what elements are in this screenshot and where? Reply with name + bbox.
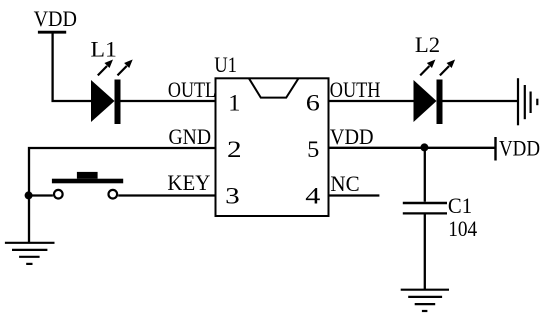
svg-text:OUTL: OUTL xyxy=(168,79,216,103)
net label KEY xyxy=(167,171,210,196)
wire U1 pin 5 to VDD port xyxy=(329,147,496,149)
pin number 5 xyxy=(307,137,319,162)
svg-text:VDD: VDD xyxy=(34,6,77,31)
wire junction to switch left terminal xyxy=(29,194,53,196)
svg-text:U1: U1 xyxy=(214,54,237,78)
LED L2 arrow 1 xyxy=(420,60,435,76)
svg-text:KEY: KEY xyxy=(167,171,210,196)
pin number 6 xyxy=(306,90,320,116)
svg-text:5: 5 xyxy=(307,137,319,162)
svg-text:3: 3 xyxy=(225,182,240,208)
node junction dot (VDD/C1) xyxy=(420,143,428,151)
net label NC xyxy=(330,172,359,197)
wire L2 cathode to right ground xyxy=(443,100,519,102)
switch S1 right terminal circle xyxy=(109,190,118,199)
switch S1 actuator bar xyxy=(52,179,123,184)
svg-text:VDD: VDD xyxy=(330,124,374,149)
pin number 1 xyxy=(228,91,240,116)
svg-text:1: 1 xyxy=(228,91,240,116)
LED L1 cathode bar xyxy=(115,80,121,125)
IC U1 designator label xyxy=(214,54,237,78)
svg-text:OUTH: OUTH xyxy=(330,79,381,103)
wire C1 bottom plate to ground xyxy=(424,215,426,290)
switch S1 actuator bump xyxy=(77,172,98,179)
wire VDD junction down to C1 top plate xyxy=(424,148,426,202)
svg-text:GND: GND xyxy=(169,124,212,149)
pin number 4 xyxy=(305,183,321,209)
IC U1 notch xyxy=(249,78,299,97)
wire VDD stem down and to LED L1 anode xyxy=(53,32,92,101)
power port VDD (right) label xyxy=(499,137,540,161)
ground symbol (bottom-left) xyxy=(5,243,55,264)
LED L2 diode triangle (anode) xyxy=(414,80,437,122)
ground symbol (bottom-right) xyxy=(401,290,449,311)
wire GND from U1 pin 2 left then down xyxy=(29,148,216,242)
LED L1 label xyxy=(91,37,117,61)
net label OUTL xyxy=(168,79,216,103)
node junction dot (GND/KEY) xyxy=(25,191,33,199)
switch S1 left terminal circle xyxy=(54,190,63,199)
pin number 2 xyxy=(227,136,242,162)
wire NC stub from U1 pin 4 xyxy=(329,194,379,196)
svg-text:NC: NC xyxy=(330,172,359,197)
LED L2 arrow 2 xyxy=(440,60,455,76)
LED L1 arrow 2 xyxy=(118,60,133,76)
LED L2 label xyxy=(415,32,440,57)
svg-text:L2: L2 xyxy=(415,32,440,57)
svg-text:4: 4 xyxy=(305,183,321,209)
ground symbol (right, rotated) xyxy=(518,78,537,125)
pin number 3 xyxy=(225,182,240,208)
LED L1 diode triangle (anode) xyxy=(91,80,115,122)
wire L1 cathode to U1 pin 1 xyxy=(121,100,216,102)
power port VDD (top-left) label xyxy=(34,6,77,31)
wire U1 pin 6 to LED L2 anode xyxy=(329,100,415,102)
svg-text:104: 104 xyxy=(448,218,478,241)
net label VDD (pin 5) xyxy=(330,124,374,149)
LED L2 cathode bar xyxy=(437,80,443,125)
capacitor C1 designator label xyxy=(448,194,472,219)
LED L1 arrow 1 xyxy=(98,60,113,76)
capacitor C1 top plate xyxy=(403,202,447,205)
wire KEY from switch to U1 pin 3 xyxy=(118,194,215,196)
IC U1 body rectangle xyxy=(216,78,329,216)
svg-text:2: 2 xyxy=(227,136,242,162)
net label GND xyxy=(169,124,212,149)
svg-text:VDD: VDD xyxy=(499,137,540,161)
svg-text:L1: L1 xyxy=(91,37,117,61)
capacitor C1 bottom plate xyxy=(403,212,447,214)
power port VDD (top-left) bar symbol xyxy=(38,31,66,34)
svg-text:C1: C1 xyxy=(448,194,472,219)
svg-text:6: 6 xyxy=(306,90,320,116)
power port VDD (right) bar xyxy=(494,137,496,161)
capacitor C1 value label 104 xyxy=(448,218,478,241)
net label OUTH xyxy=(330,79,381,103)
